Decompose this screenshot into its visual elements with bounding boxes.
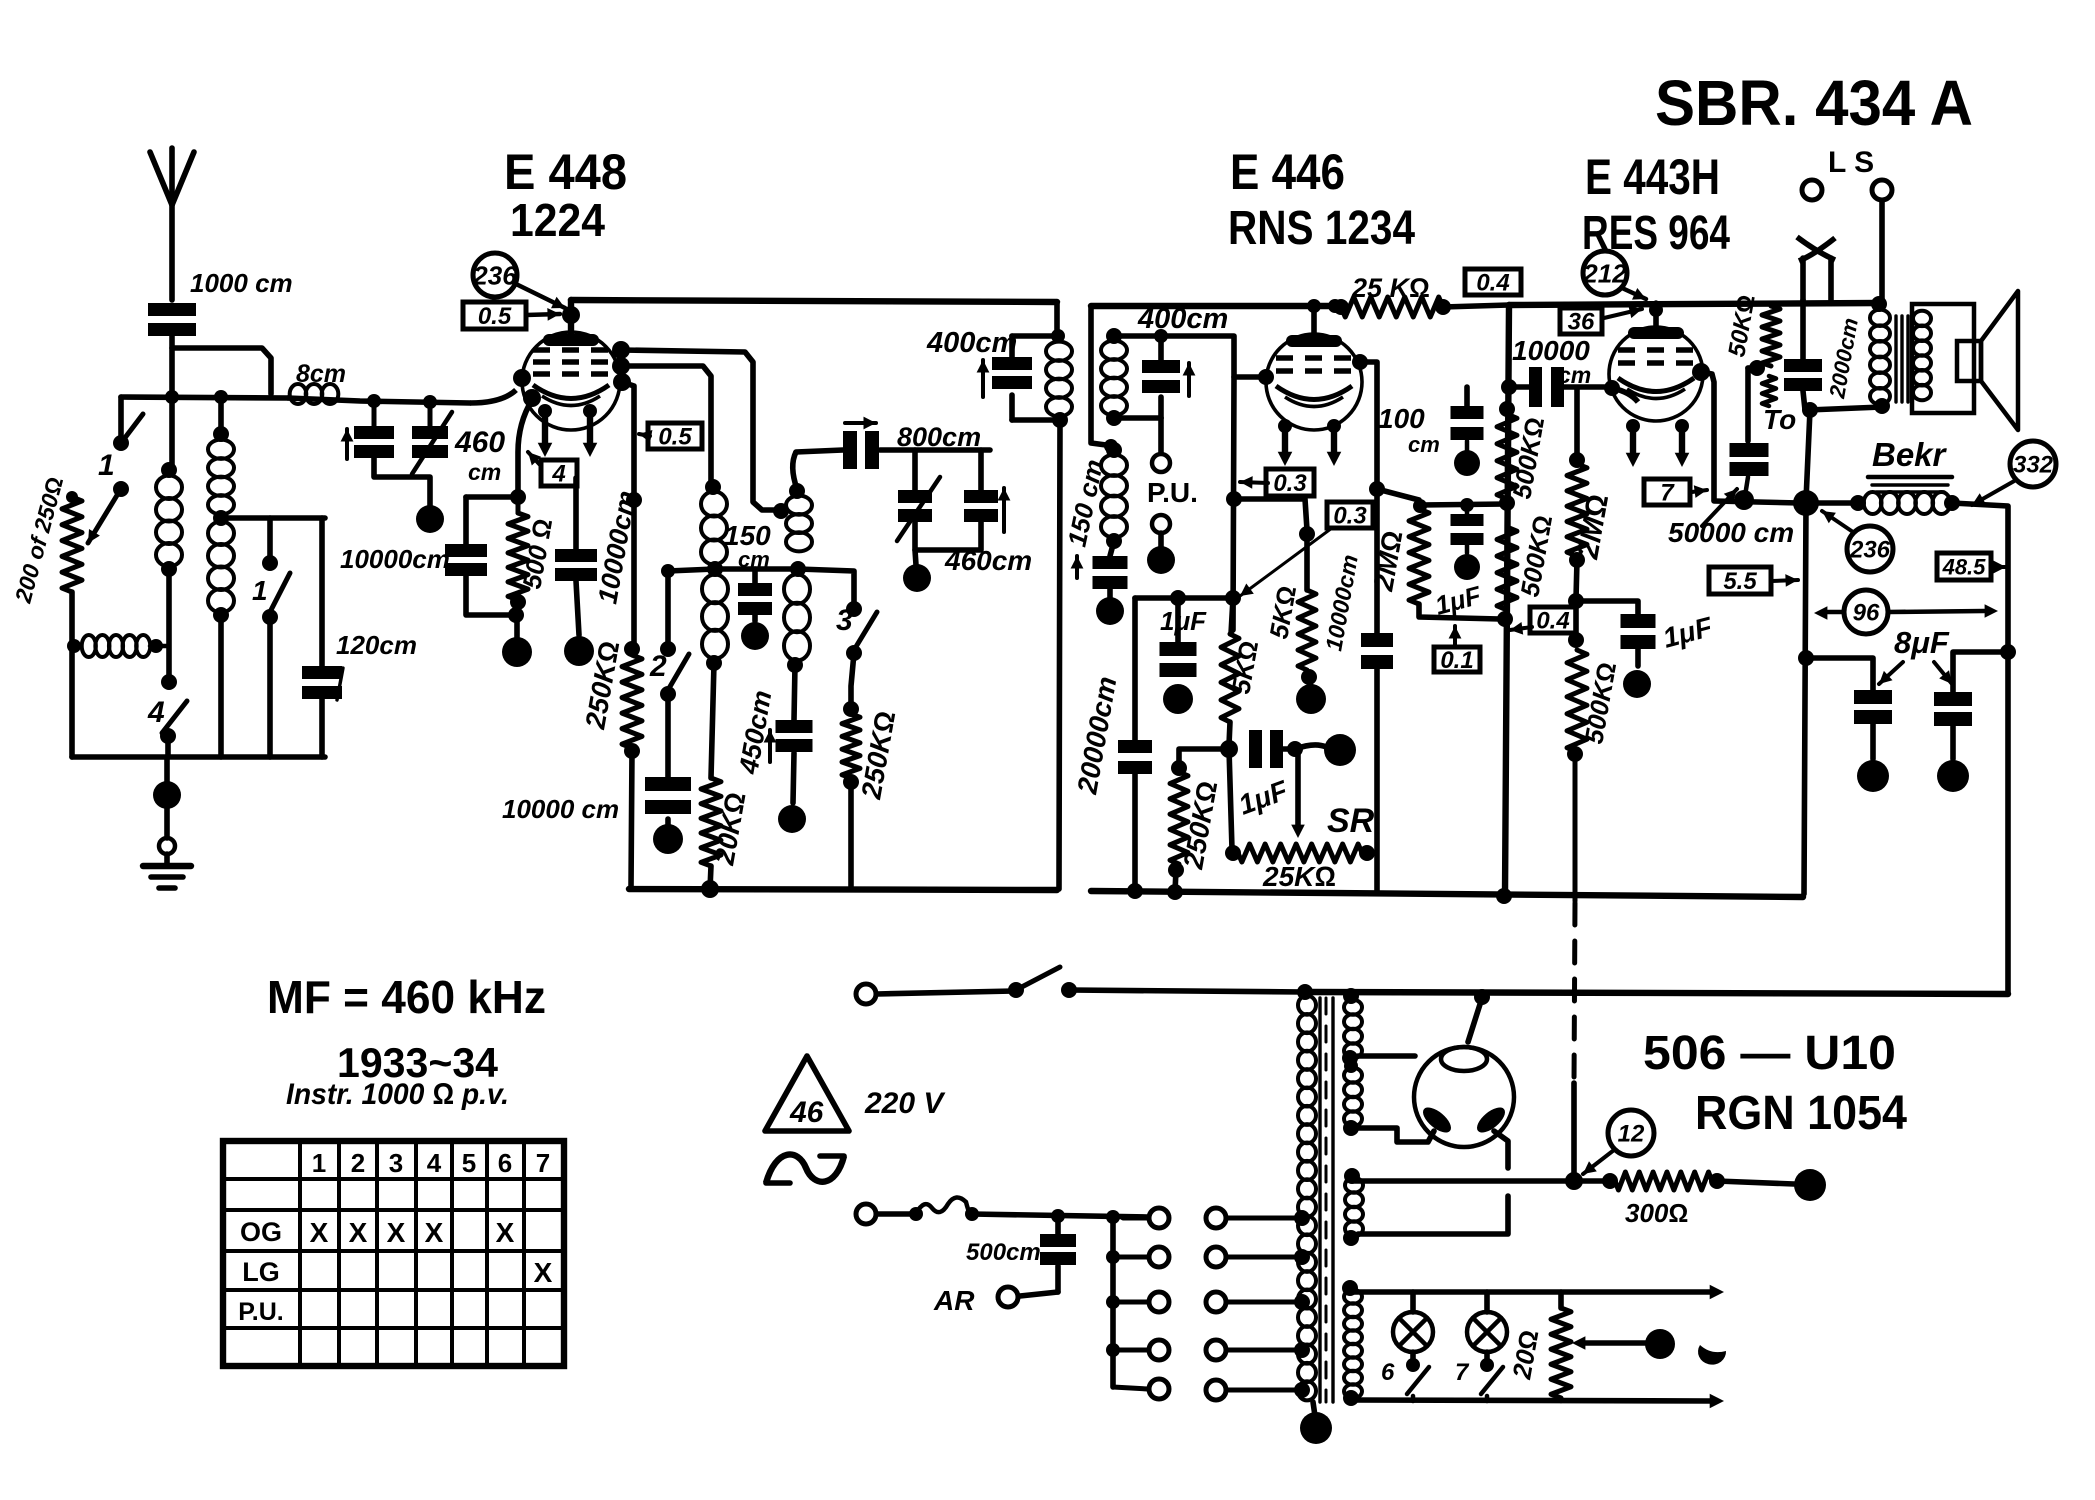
resistor 500K out xyxy=(1573,601,1579,640)
junction grid2 a xyxy=(1226,491,1242,507)
capacitor 150cm tap xyxy=(752,569,758,583)
wire AR xyxy=(1020,1292,1058,1296)
svg-text:3: 3 xyxy=(836,604,853,637)
junction 500cm xyxy=(1051,1209,1065,1223)
antenna xyxy=(150,152,172,300)
arrow 0.1 xyxy=(1453,626,1457,645)
capacitor 1000cm xyxy=(148,303,196,316)
wire cathode drop xyxy=(622,382,634,649)
terminal sel2 xyxy=(1206,1247,1226,1267)
svg-text:400cm: 400cm xyxy=(926,327,1017,359)
arrow 48.5 xyxy=(1992,565,2006,569)
terminal dot PU xyxy=(1158,533,1164,547)
terminal dot switch2 cap xyxy=(665,819,671,827)
top bus stage2 xyxy=(1091,303,1338,309)
svg-text:8cm: 8cm xyxy=(296,360,346,388)
wire 0.5 arrow xyxy=(526,314,560,315)
svg-text:cm: cm xyxy=(468,459,501,485)
svg-text:36: 36 xyxy=(1568,309,1595,336)
capacitor 120cm xyxy=(302,666,342,679)
wire IF1 taps row xyxy=(668,569,798,571)
wire B+ down right xyxy=(1307,992,2008,994)
wire IF1b to bus xyxy=(1059,420,1060,889)
junction earth dot xyxy=(153,781,181,809)
wire 20ohm tap xyxy=(1583,1340,1646,1346)
capacitor 450cm xyxy=(794,665,795,720)
blob xyxy=(1698,1345,1726,1365)
box 0.3 b xyxy=(1327,502,1373,528)
svg-text:E 443H: E 443H xyxy=(1585,149,1720,205)
wire L2 bottom to bus xyxy=(218,615,224,757)
oscillator fixed cap xyxy=(978,450,984,490)
coil IF1 primary top xyxy=(705,479,721,495)
capacitor 20000cm xyxy=(1132,598,1138,740)
wire grid row xyxy=(121,397,288,398)
resistor 2M stage2 xyxy=(1377,489,1419,509)
svg-text:SBR. 434 A: SBR. 434 A xyxy=(1655,67,1973,139)
junction 20K bus xyxy=(710,866,711,889)
switch 3 xyxy=(846,601,862,617)
wire 10000cm anode2 bus xyxy=(1374,668,1380,891)
switch 1 wire xyxy=(118,397,124,441)
wire tap down to 120cm xyxy=(319,518,325,666)
capacitor 100cm xyxy=(1464,387,1470,406)
wire pot to bus xyxy=(69,592,75,757)
pin circle 236 xyxy=(473,253,517,297)
capacitor 10000cm bias xyxy=(466,494,518,500)
wire antenna branch right xyxy=(172,348,271,394)
svg-text:0.5: 0.5 xyxy=(658,424,692,451)
arrow 96 right xyxy=(1888,611,1984,612)
tube U1 grid pin xyxy=(513,369,531,387)
choke Bekr xyxy=(1806,500,1858,506)
wire HT to rect xyxy=(1571,1083,1577,1178)
box 5.5 xyxy=(1709,567,1771,594)
terminal dot 5K b xyxy=(1309,677,1311,684)
wire SR arrow xyxy=(1295,754,1301,826)
svg-text:Instr. 1000 Ω p.v.: Instr. 1000 Ω p.v. xyxy=(286,1078,509,1111)
terminal sel3 xyxy=(1206,1292,1226,1312)
terminal sel5 xyxy=(1206,1380,1226,1400)
svg-text:2: 2 xyxy=(351,1148,365,1178)
wire antenna to coil L1 xyxy=(169,336,175,470)
pin circle 12 xyxy=(1608,1110,1654,1156)
wire 5K2 top xyxy=(1234,499,1307,530)
junction cathode drop xyxy=(626,492,642,508)
coil L1 xyxy=(161,462,177,478)
terminal dot 1uF xyxy=(1295,745,1326,749)
arrow 332 xyxy=(1972,480,2016,505)
wire 800cm to tank xyxy=(880,447,990,453)
lamp 6 xyxy=(1393,1312,1433,1352)
speaker xyxy=(1957,341,1981,381)
wire HV top to anode xyxy=(1358,1053,1415,1059)
wire HT out row xyxy=(1355,1178,1608,1184)
oscillator varcap 460cm xyxy=(912,450,918,490)
wire To down xyxy=(1806,410,1810,500)
svg-text:8μF: 8μF xyxy=(1894,625,1950,660)
terminal dot tank xyxy=(915,550,916,565)
arrow 8uF right xyxy=(1934,662,1952,684)
wire 500K mid row xyxy=(1420,504,1507,505)
AC symbol xyxy=(766,1154,844,1183)
junction IF1 primary mid xyxy=(707,561,723,577)
wire grid return xyxy=(518,400,532,496)
arrow 36 xyxy=(1604,309,1642,318)
svg-text:460cm: 460cm xyxy=(944,545,1032,576)
wire res500 join xyxy=(517,602,518,615)
power transformer secondary HV top xyxy=(1343,988,1359,1004)
wire 250Kb top xyxy=(1179,749,1229,766)
svg-text:236: 236 xyxy=(472,260,517,290)
wire L2 tap right xyxy=(221,515,325,521)
capacitor input fixed xyxy=(372,401,377,426)
rheostat SR 25K xyxy=(1225,845,1241,861)
svg-text:0.3: 0.3 xyxy=(1333,503,1367,530)
svg-text:300Ω: 300Ω xyxy=(1625,1198,1688,1228)
wire fuse to taps xyxy=(972,1214,1148,1217)
wire 2M bottom xyxy=(1419,604,1500,619)
svg-text:cm: cm xyxy=(1408,432,1440,457)
svg-text:460: 460 xyxy=(454,426,505,459)
capacitor input variable 460cm xyxy=(428,402,433,426)
svg-text:1: 1 xyxy=(98,449,115,482)
pin circle 212 xyxy=(1583,251,1627,295)
arrow 8uF left xyxy=(1879,662,1903,684)
box 0.5 cathode xyxy=(648,423,702,449)
svg-text:P.U.: P.U. xyxy=(238,1298,283,1326)
wire switch2 to cap xyxy=(665,694,671,777)
switch 2 xyxy=(660,641,676,657)
wire Bekr right xyxy=(1952,503,2008,994)
svg-text:X: X xyxy=(387,1217,406,1248)
svg-text:236: 236 xyxy=(1849,537,1891,564)
capacitor 10000cm switch2 xyxy=(645,777,691,791)
wire PU stem xyxy=(1158,418,1164,452)
svg-text:0.4: 0.4 xyxy=(1536,608,1569,635)
junction HT xyxy=(1565,1172,1583,1190)
tube U2 E446 xyxy=(1266,334,1362,430)
coil IF1 primary bottom xyxy=(702,574,728,603)
coil 8cm xyxy=(290,384,307,404)
svg-text:0.4: 0.4 xyxy=(1476,270,1509,297)
svg-text:P.U.: P.U. xyxy=(1147,477,1198,508)
terminal LS left xyxy=(1802,180,1822,200)
terminal dot varcap xyxy=(416,505,444,533)
svg-text:0.5: 0.5 xyxy=(478,303,512,330)
wire anode A xyxy=(621,350,778,510)
power transformer core xyxy=(1318,998,1321,1402)
junction Bekr left xyxy=(1793,490,1819,516)
svg-text:MF = 460 kHz: MF = 460 kHz xyxy=(267,971,546,1023)
output transformer core xyxy=(1894,316,1897,402)
svg-text:AR: AR xyxy=(933,1285,975,1316)
tube U3 cathode arrows xyxy=(1626,419,1640,433)
svg-text:1μF: 1μF xyxy=(1160,606,1207,636)
svg-text:0.3: 0.3 xyxy=(1273,470,1307,497)
coil L2 lower xyxy=(208,522,234,545)
svg-text:X: X xyxy=(534,1257,553,1288)
coupling coil horizontal xyxy=(82,635,96,657)
wire dashed HT xyxy=(1574,903,1575,1083)
capacitor 150cm stage2 xyxy=(1110,541,1114,556)
svg-text:Bekr: Bekr xyxy=(1872,436,1948,473)
svg-text:3: 3 xyxy=(389,1148,403,1178)
power transformer secondary HV bottom xyxy=(1344,1168,1360,1184)
grid2 vertical xyxy=(1233,377,1234,630)
top bus stage1 xyxy=(571,300,1057,302)
wire 236 arrow xyxy=(516,284,565,308)
svg-text:48.5: 48.5 xyxy=(1942,554,1987,579)
heater rail top xyxy=(1351,1289,1712,1295)
capacitor 400cm stage2 xyxy=(1158,336,1164,360)
arrow 0.4 b xyxy=(1510,627,1532,630)
potentiometer 200/250 ohm xyxy=(62,497,82,592)
stage2 left riser xyxy=(1091,306,1106,445)
wire L2 top xyxy=(218,397,224,434)
arrow 5.5 xyxy=(1772,580,1798,581)
wire mains switch a xyxy=(877,991,1014,994)
wire 5Ka to SR xyxy=(1229,749,1232,849)
triangle 46 xyxy=(765,1056,849,1131)
capacitor 400cm stage1 xyxy=(1012,333,1058,339)
wire grid2 row xyxy=(1114,336,1262,377)
wire switch1prime to bus xyxy=(267,617,273,757)
box 7 xyxy=(1644,479,1690,505)
rectifier filament right xyxy=(1473,1103,1509,1137)
tube U2 anode pin xyxy=(1352,354,1368,370)
tube U2 grid pin xyxy=(1258,369,1274,385)
svg-text:120cm: 120cm xyxy=(336,630,417,660)
junction 5K a bottom xyxy=(1229,722,1230,745)
junction grid return xyxy=(510,489,526,505)
wire 250K stage2 bus xyxy=(1175,870,1176,892)
capacitor 100cm b xyxy=(1465,505,1470,514)
arrow 0.5 cathode xyxy=(639,434,650,436)
wire bus1 right riser xyxy=(1054,302,1060,336)
bus3 vertical xyxy=(1505,305,1509,894)
junction osc tap xyxy=(773,503,789,519)
rectifier filament left xyxy=(1419,1103,1455,1137)
svg-text:7: 7 xyxy=(1455,1359,1470,1386)
svg-text:220 V: 220 V xyxy=(864,1087,946,1120)
svg-text:1: 1 xyxy=(312,1148,326,1178)
svg-text:6: 6 xyxy=(498,1148,512,1178)
wire 400cm bottom xyxy=(1114,415,1161,421)
svg-text:506 — U10: 506 — U10 xyxy=(1643,1027,1896,1080)
arrow 236b xyxy=(1822,511,1853,532)
resistor 2M grid3 xyxy=(1574,388,1580,458)
bus ground row xyxy=(72,754,325,760)
tube U3 top stem xyxy=(1653,303,1659,336)
terminal tap1 xyxy=(1149,1208,1169,1228)
wire 500K out tail xyxy=(1573,754,1578,901)
svg-text:332: 332 xyxy=(2013,452,2054,479)
mains switch xyxy=(1016,967,1060,990)
junction bus3 bottom xyxy=(1496,888,1512,904)
valve socket table xyxy=(223,1141,564,1366)
terminal PU2 xyxy=(1152,515,1170,533)
box 0.1 xyxy=(1434,647,1480,672)
junction anode2 xyxy=(1369,481,1385,497)
svg-text:7: 7 xyxy=(1660,480,1675,507)
terminal dot bias xyxy=(514,615,520,637)
switch 4 xyxy=(162,701,187,733)
resistor 500Ka chain xyxy=(1499,401,1515,417)
coil 150cm stage2 xyxy=(1106,442,1122,458)
terminal earth ring xyxy=(159,838,175,854)
svg-text:1000 cm: 1000 cm xyxy=(190,268,293,298)
capacitor 500cm xyxy=(1055,1216,1061,1234)
capacitor 10000cm anode2 xyxy=(1361,633,1393,647)
svg-text:X: X xyxy=(349,1217,368,1248)
arrow 0.3 b xyxy=(1240,528,1332,596)
svg-text:L S: L S xyxy=(1828,146,1874,179)
pin circle 332 xyxy=(2010,441,2056,487)
svg-text:5.5: 5.5 xyxy=(1723,568,1757,595)
terminal dot 450cm xyxy=(793,753,794,803)
svg-text:SR: SR xyxy=(1327,802,1375,840)
power transformer bottom lead xyxy=(1313,1402,1315,1416)
resistor 20K xyxy=(701,778,721,866)
svg-text:4: 4 xyxy=(551,461,565,488)
wire grid3 left xyxy=(1509,384,1529,390)
switch 1prime xyxy=(262,555,278,571)
svg-text:25 KΩ: 25 KΩ xyxy=(1351,273,1430,303)
svg-text:400cm: 400cm xyxy=(1137,303,1228,335)
wire L1 to switch 4 xyxy=(166,569,172,680)
arrow 212 xyxy=(1622,288,1646,299)
wire anode2 xyxy=(1360,362,1377,633)
junction L2 top tap xyxy=(214,390,228,404)
switch 1prime wire xyxy=(267,518,273,561)
svg-text:212: 212 xyxy=(1582,258,1627,288)
box 4 label xyxy=(541,460,577,486)
power transformer primary xyxy=(1298,996,1316,1015)
box 36 xyxy=(1560,308,1602,334)
wire anode3 xyxy=(1701,372,1714,500)
junction cap variable xyxy=(423,395,437,409)
wire 25K to bus3 xyxy=(1443,305,1509,307)
wire earth stem xyxy=(164,806,170,838)
wire switch3 down xyxy=(851,653,854,707)
wire screen B xyxy=(621,366,711,484)
wire 10000cm bias bottom xyxy=(466,576,516,615)
terminal LS right xyxy=(1872,180,1892,200)
arrow 150cm stage2 xyxy=(1075,556,1079,578)
pin circle 236b xyxy=(1847,526,1893,572)
svg-text:50000 cm: 50000 cm xyxy=(1668,517,1794,548)
capacitor 8uF b xyxy=(1953,652,2008,692)
wire caps bottom xyxy=(374,458,430,505)
terminal PU1 xyxy=(1152,454,1170,472)
top bus stage3 xyxy=(1509,303,1879,305)
wire pin right down xyxy=(1494,1131,1508,1168)
capacitor 50000cm xyxy=(1730,443,1769,457)
tube U1 anode pin xyxy=(612,341,630,359)
arrow 96 left xyxy=(1826,610,1844,615)
wire switch4 to bus xyxy=(165,736,171,757)
tube U1 E448 xyxy=(522,332,620,430)
wire left HT vertical xyxy=(1804,503,1806,894)
wire 120cm to bus xyxy=(319,697,325,757)
coil IF1 secondary bottom xyxy=(784,574,810,603)
wire transformer bottom xyxy=(1808,407,1882,410)
resistor 5K b xyxy=(1304,534,1310,590)
junction 20000cm bus xyxy=(1127,883,1143,899)
bus stage1 bottom xyxy=(629,889,1057,890)
svg-text:E 446: E 446 xyxy=(1230,144,1345,200)
power transformer secondary fil2 xyxy=(1342,1280,1358,1296)
ground xyxy=(164,854,170,864)
svg-text:2: 2 xyxy=(649,650,667,683)
svg-text:RGN 1054: RGN 1054 xyxy=(1695,1087,1907,1140)
terminal tap5 xyxy=(1113,1387,1148,1389)
coil L2 upper xyxy=(213,426,229,442)
box 0.5 grid xyxy=(463,302,526,329)
junction 8uF a xyxy=(1798,650,1814,666)
output transformer primary xyxy=(1870,310,1890,326)
box 0.3 a xyxy=(1266,469,1314,496)
wire grid3 right xyxy=(1564,384,1612,390)
capacitor 800cm xyxy=(843,431,857,469)
pin circle 96 xyxy=(1844,590,1888,634)
svg-text:To: To xyxy=(1763,404,1796,435)
wire tank bottom xyxy=(915,522,981,550)
terminal sel1 xyxy=(1206,1208,1226,1228)
resistor 5K a xyxy=(1231,598,1233,634)
svg-text:LG: LG xyxy=(242,1257,280,1287)
svg-text:RNS 1234: RNS 1234 xyxy=(1228,202,1415,255)
svg-text:500cm: 500cm xyxy=(966,1239,1041,1266)
wire IF1 sec top to 800cm xyxy=(793,452,797,489)
arrow 800cm xyxy=(845,421,876,425)
svg-text:X: X xyxy=(310,1217,329,1248)
junction L2 mid xyxy=(213,510,229,526)
capacitor 8uF a xyxy=(1806,658,1873,690)
resistor 500 ohm xyxy=(516,497,521,513)
output transformer secondary xyxy=(1913,311,1931,326)
junction cap fixed xyxy=(367,394,381,408)
resistor 250K stage1 xyxy=(624,641,640,657)
output jack cross xyxy=(1797,237,1835,260)
svg-text:cm: cm xyxy=(1558,362,1591,388)
capacitor 1uF series xyxy=(1249,730,1262,768)
tube U3 anode pin xyxy=(1692,363,1710,381)
wire LS right down xyxy=(1879,201,1885,303)
capacitor 2000cm xyxy=(1800,300,1806,359)
svg-text:5: 5 xyxy=(462,1148,476,1178)
capacitor 10000cm grid3 xyxy=(1529,367,1542,407)
capacitor 10000cm osc grid xyxy=(573,478,579,549)
svg-text:1224: 1224 xyxy=(510,194,605,246)
coil IF1b xyxy=(1046,342,1072,361)
tube U2 cathode arrows xyxy=(1278,419,1292,433)
coil IF1 secondary top xyxy=(789,483,805,499)
resistor 25K screen xyxy=(1337,305,1339,307)
wire tap column xyxy=(1110,1217,1116,1387)
wire rectifier anode xyxy=(1468,998,1482,1042)
junction xfmr top left xyxy=(1297,984,1313,1000)
resistor 250K osc xyxy=(843,701,859,717)
fuse xyxy=(877,1211,912,1217)
svg-text:4: 4 xyxy=(147,696,165,729)
tube U1 top stem xyxy=(568,300,574,334)
wire 250K osc to bus xyxy=(848,782,854,889)
box 48.5 xyxy=(1937,553,1991,580)
tube U3 E443H xyxy=(1609,327,1703,421)
svg-text:X: X xyxy=(425,1217,444,1248)
